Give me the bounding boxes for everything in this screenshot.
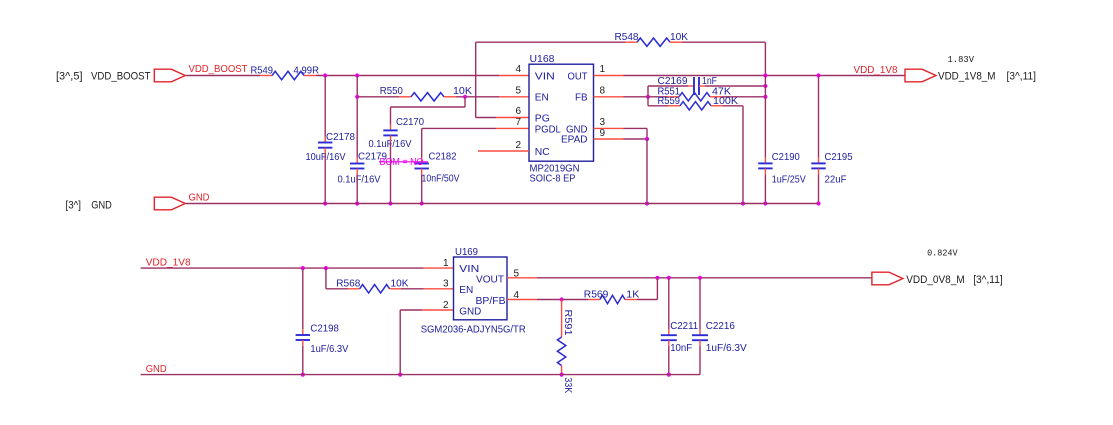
svg-text:[3^,11]: [3^,11] [1007, 70, 1037, 82]
off-page connector VDD_BOOST [154, 69, 185, 82]
net label GND (top) [189, 193, 210, 204]
svg-text:BP/FB: BP/FB [476, 295, 506, 307]
pin name OUT [568, 70, 589, 82]
pin name VIN [535, 70, 555, 82]
capacitor C2216 [692, 320, 747, 354]
wire R549 to VIN [316, 75, 529, 77]
resistor R568 [336, 277, 408, 293]
svg-text:U168: U168 [530, 53, 555, 65]
wire GND rail (top) [186, 203, 819, 205]
part value SOIC-8 EP [530, 172, 576, 184]
pin 2 number [515, 140, 521, 151]
BOM = NO annotation [379, 157, 428, 168]
svg-text:EN: EN [535, 92, 549, 104]
wire VDD_BOOST to R549 [186, 75, 260, 77]
svg-text:VIN: VIN [535, 70, 555, 82]
svg-text:4: 4 [515, 64, 521, 75]
svg-text:10K: 10K [391, 277, 409, 289]
wire C2216 top stub [699, 278, 701, 335]
wire R568 to EN [401, 288, 454, 290]
svg-text:1K: 1K [626, 288, 639, 300]
svg-text:C2182: C2182 [429, 151, 457, 163]
node junction at C2179 [355, 73, 359, 77]
net label VDD_BOOST [189, 64, 248, 75]
wire R569 to VOUT [637, 278, 657, 300]
svg-text:OUT: OUT [568, 70, 589, 82]
resistor R551 [648, 86, 765, 101]
pin name NC [535, 146, 550, 158]
wire R548 top right [682, 41, 765, 43]
wire BP/FB to R569 [562, 299, 588, 301]
off-page connector GND [154, 197, 185, 210]
resistor R550 [357, 85, 472, 101]
node junction OUT/R548 [763, 73, 767, 77]
svg-text:[3^]: [3^] [66, 199, 82, 211]
node junction C2178-GND [323, 201, 327, 205]
node junction C2170-GND [388, 201, 392, 205]
pin name GND [566, 124, 588, 136]
pin 4 number [515, 64, 521, 75]
wire C2195 top stub [818, 76, 820, 164]
port text VDD_0V8_M [906, 274, 1003, 286]
wire C2198 top stub [302, 268, 304, 335]
wire C2179 bottom stub [356, 169, 358, 204]
resistor R559 [648, 95, 743, 110]
pin name PGDL [535, 124, 561, 136]
voltage annotation 0.824V [927, 247, 958, 258]
pin 2 number (U169) [443, 300, 449, 311]
port reference text [3^] GND [66, 199, 112, 211]
wire PGDL net [422, 127, 529, 129]
capacitor C2170 [369, 116, 425, 150]
svg-text:1: 1 [600, 64, 606, 75]
net label VDD_1V8 (bottom) [146, 257, 191, 268]
svg-text:GND: GND [189, 193, 210, 204]
svg-text:0.1uF/16V: 0.1uF/16V [338, 173, 381, 185]
node junction C2190-GND [763, 201, 767, 205]
svg-text:33K: 33K [562, 377, 574, 393]
svg-text:R568: R568 [336, 277, 360, 289]
capacitor C2169 [648, 75, 765, 95]
pin name EN [535, 92, 549, 104]
refdes U168 [530, 53, 555, 65]
node junction R551 right [763, 95, 767, 99]
wire VDD_1V8 vertical [764, 76, 766, 164]
svg-text:10K: 10K [453, 85, 472, 97]
svg-text:C2195: C2195 [825, 151, 853, 163]
svg-text:C2190: C2190 [772, 151, 800, 163]
svg-text:VDD_BOOST: VDD_BOOST [189, 64, 248, 75]
pin 2 NC stub [478, 150, 529, 152]
svg-text:100K: 100K [713, 95, 738, 107]
wire FB pin [594, 96, 649, 98]
pin 4 number (U169) [514, 290, 520, 301]
svg-text:GND: GND [91, 199, 112, 211]
svg-text:3: 3 [443, 279, 449, 290]
wire C2179 top stub [356, 76, 358, 164]
node junction VOUT/R569 [655, 276, 659, 280]
wire EPAD pin 9 [594, 138, 648, 140]
svg-text:GND: GND [459, 305, 481, 317]
svg-text:10nF/50V: 10nF/50V [422, 173, 460, 185]
svg-text:R548: R548 [615, 31, 639, 43]
svg-text:[3^,11]: [3^,11] [973, 274, 1003, 286]
pin 1 number (U169) [443, 258, 449, 269]
pin name FB [575, 92, 588, 104]
svg-text:1: 1 [443, 258, 449, 269]
wire R559 to GND [742, 106, 744, 204]
node junction C2182-GND [420, 201, 424, 205]
wire GND pin 3 [594, 128, 648, 139]
wire GND rail (bottom) [141, 374, 700, 376]
node junction at C2178 [323, 73, 327, 77]
wire C2190 bottom stub [764, 168, 766, 203]
node junction pin2-GND [398, 373, 402, 377]
wire C2182 top stub [421, 128, 423, 163]
capacitor C2190 [758, 151, 806, 185]
wire C2198 bottom stub [302, 340, 304, 375]
wire VDD_1V8 rail (bottom) [141, 267, 454, 269]
wire R548 right vertical [764, 42, 766, 75]
port text VDD_1V8_M [938, 70, 1036, 82]
svg-text:10nF: 10nF [670, 342, 692, 354]
svg-text:C2216: C2216 [706, 320, 735, 332]
svg-text:R549: R549 [251, 65, 274, 77]
refdes U169 [455, 246, 478, 258]
capacitor C2182 [415, 151, 460, 185]
resistor R548 [615, 31, 689, 47]
svg-text:GND: GND [146, 364, 167, 375]
capacitor C2198 [296, 322, 349, 355]
svg-text:1uF/25V: 1uF/25V [772, 173, 806, 185]
wire C2216 bottom stub [699, 340, 701, 374]
node junction FB [646, 95, 650, 99]
net label GND (bottom) [146, 364, 167, 375]
node junction C2198 [301, 266, 305, 270]
node junction pin3/EPAD [645, 137, 649, 141]
node junction BP/FB [560, 297, 564, 301]
wire EPAD to GND rail [646, 139, 648, 204]
svg-text:[3^,5]: [3^,5] [56, 70, 83, 82]
resistor R549 [251, 65, 320, 80]
svg-text:1uF/6.3V: 1uF/6.3V [706, 342, 747, 354]
wire R548 top left [476, 41, 625, 43]
svg-text:R559: R559 [658, 95, 681, 107]
off-page connector VDD_0V8_M [872, 272, 903, 285]
wire C2178 top stub [324, 76, 326, 143]
node junction C2211-GND [667, 373, 671, 377]
svg-text:6: 6 [515, 106, 521, 117]
capacitor C2179 [338, 150, 388, 185]
wire C2211 top stub [668, 278, 670, 335]
node junction VOUT/C2216 [698, 276, 702, 280]
pin name BP/FB [476, 295, 506, 307]
resistor R591 [557, 300, 574, 394]
svg-text:VDD_BOOST: VDD_BOOST [91, 70, 151, 82]
node junction C2198-GND [301, 373, 305, 377]
node junction C2195-GND [816, 201, 820, 205]
svg-text:R550: R550 [380, 85, 403, 97]
capacitor C2178 [306, 131, 356, 163]
svg-text:7: 7 [515, 117, 521, 128]
pin name GND (U169) [459, 305, 481, 317]
svg-text:5: 5 [515, 85, 521, 96]
svg-text:C2211: C2211 [670, 320, 698, 332]
pin 6 number [515, 106, 521, 117]
pin 5 number (U169) [514, 268, 520, 279]
wire BP/FB net [507, 299, 562, 301]
svg-text:VOUT: VOUT [476, 274, 505, 286]
wire R548 left vertical [475, 42, 477, 117]
wire C2211 bottom stub [668, 340, 670, 374]
node junction EPAD-GND [645, 201, 649, 205]
svg-text:BOM = NO: BOM = NO [380, 157, 424, 168]
svg-text:0.824V: 0.824V [927, 247, 958, 258]
svg-text:EPAD: EPAD [561, 134, 588, 146]
node junction R591-GND [560, 373, 564, 377]
IC U168 body [529, 64, 594, 161]
wire R550 to EN pin [456, 96, 529, 98]
svg-text:VDD_1V8_M: VDD_1V8_M [938, 70, 996, 82]
node junction C2169 right [763, 84, 767, 88]
wire PG net [476, 117, 529, 119]
svg-text:4.99R: 4.99R [294, 65, 320, 77]
capacitor C2211 [661, 320, 699, 354]
port reference text [3^,5] VDD_BOOST [56, 70, 151, 82]
svg-text:R591: R591 [562, 310, 574, 336]
svg-text:C2170: C2170 [396, 116, 424, 128]
wire VOUT net [507, 277, 872, 279]
svg-text:VDD_1V8: VDD_1V8 [854, 65, 898, 76]
node junction OUT/C2195 [816, 73, 820, 77]
pin name EN (U169) [459, 284, 473, 296]
svg-text:C2178: C2178 [326, 131, 355, 143]
node junction R568 tap [324, 266, 328, 270]
wire C2178 bottom stub [324, 148, 326, 204]
pin name VOUT [476, 274, 505, 286]
wire C2195 bottom stub [818, 168, 820, 203]
part value SGM2036 [421, 323, 526, 335]
svg-text:VDD_1V8: VDD_1V8 [146, 257, 191, 268]
IC U169 body [454, 257, 508, 320]
wire OUT to VDD_1V8 [594, 75, 906, 77]
pin name VIN (U169) [459, 263, 479, 275]
svg-text:PGDL: PGDL [535, 124, 561, 136]
svg-text:1.83V: 1.83V [948, 54, 975, 65]
svg-text:1uF/6.3V: 1uF/6.3V [310, 343, 348, 355]
wire EN tap jog to C2170 [391, 97, 466, 107]
wire C2182 bottom stub [421, 169, 423, 204]
pin 8 number [600, 85, 606, 96]
svg-text:NC: NC [535, 146, 550, 158]
svg-text:VDD_0V8_M: VDD_0V8_M [906, 274, 965, 286]
svg-text:FB: FB [575, 92, 588, 104]
net label VDD_1V8 [854, 65, 898, 76]
resistor R569 [584, 288, 640, 303]
svg-text:SOIC-8 EP: SOIC-8 EP [530, 172, 576, 184]
part value MP2019GN [530, 163, 580, 175]
svg-text:R569: R569 [584, 288, 609, 300]
wire R568 jog [326, 268, 348, 289]
pin 5 number [515, 85, 521, 96]
svg-text:U169: U169 [455, 246, 478, 258]
pin name EPAD [561, 134, 588, 146]
pin 3 number [600, 117, 606, 128]
svg-text:2: 2 [443, 300, 449, 311]
wire GND pin 2 [400, 310, 453, 375]
pin 7 number [515, 117, 521, 128]
node junction R559-GND [741, 201, 745, 205]
svg-text:C2198: C2198 [310, 322, 339, 334]
svg-text:8: 8 [600, 85, 606, 96]
wire C2170 top stub [390, 107, 392, 130]
svg-text:3: 3 [600, 117, 606, 128]
svg-text:SGM2036-ADJYN5G/TR: SGM2036-ADJYN5G/TR [421, 323, 526, 335]
pin 9 number [600, 128, 606, 139]
svg-text:22uF: 22uF [825, 173, 847, 185]
node junction C2179-GND [355, 201, 359, 205]
svg-text:10K: 10K [670, 31, 688, 43]
node junction R550 tap [355, 95, 359, 99]
voltage annotation 1.83V [948, 54, 975, 65]
svg-text:9: 9 [600, 128, 606, 139]
pin 3 number (U169) [443, 279, 449, 290]
pin name PG [535, 113, 550, 125]
node junction VOUT/C2211 [667, 276, 671, 280]
wire feedback left vertical [647, 86, 649, 106]
pin 1 number [600, 64, 606, 75]
svg-text:EN: EN [459, 284, 473, 296]
off-page connector VDD_1V8_M [905, 69, 936, 82]
capacitor C2195 [811, 151, 852, 185]
svg-text:2: 2 [515, 140, 521, 151]
node junction EN/PG tap [463, 95, 467, 99]
wire C2170 bottom stub [390, 135, 392, 203]
